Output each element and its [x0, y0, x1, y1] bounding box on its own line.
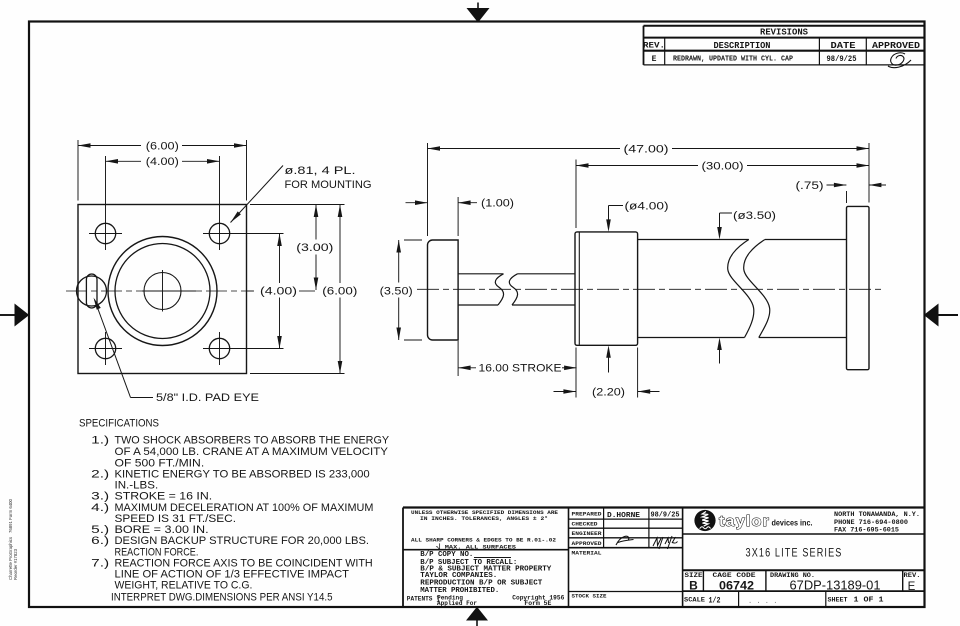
svg-text:MATERIAL: MATERIAL [572, 550, 602, 557]
dim 4.00 vertical right [280, 233, 284, 235]
svg-text:(30.00): (30.00) [702, 160, 744, 172]
flange plate square outline [78, 205, 247, 374]
rod break line left [495, 274, 503, 305]
piston rod lower edge [458, 304, 498, 306]
dim 30.00 body [576, 165, 698, 167]
svg-text:IN.-LBS.: IN.-LBS. [115, 479, 159, 491]
dim 47.00 overall [428, 148, 621, 150]
svg-text:REDRAWN, UPDATED WITH CYL. CAP: REDRAWN, UPDATED WITH CYL. CAP [673, 56, 794, 64]
cylinder front cap [575, 232, 638, 345]
flange horizontal centerline [66, 290, 254, 292]
extension lines right [250, 204, 345, 206]
svg-text:E: E [908, 581, 916, 593]
dim 16.00 stroke [458, 367, 476, 369]
svg-text:STROKE = 16 IN.: STROKE = 16 IN. [115, 491, 213, 503]
svg-text:(47.00): (47.00) [624, 143, 669, 155]
dim 1.00 plate thickness [406, 202, 428, 204]
svg-text:E: E [652, 55, 657, 64]
svg-text:SHEET: SHEET [828, 597, 848, 604]
mounting plate side view [428, 240, 459, 340]
svg-text:INTERPRET DWG.DIMENSIONS PER A: INTERPRET DWG.DIMENSIONS PER ANSI Y14.5 [111, 591, 333, 603]
leader dia 4.00 front cap [609, 205, 624, 207]
svg-text:98/9/25: 98/9/25 [651, 512, 681, 520]
mounting hole bottom-right [209, 338, 229, 358]
svg-text:PATENTS ]: PATENTS ] [407, 595, 440, 602]
svg-text:OF A 54,000 LB. CRANE AT A MAX: OF A 54,000 LB. CRANE AT A MAXIMUM VELOC… [115, 446, 389, 458]
svg-text:3.): 3.) [91, 491, 109, 503]
svg-text:67DP-13189-01: 67DP-13189-01 [790, 578, 881, 592]
piston rod upper edge [458, 273, 503, 275]
dim 3.50 plate height [398, 240, 400, 283]
leader dia 3.50 body [720, 212, 733, 214]
svg-text:PHONE 716-694-0800: PHONE 716-694-0800 [834, 519, 908, 526]
svg-text:4.): 4.) [91, 502, 109, 514]
dim 6.00 vertical [339, 205, 341, 284]
center circle crosshair [142, 290, 196, 292]
svg-text:(4.00): (4.00) [260, 285, 297, 297]
svg-text:3X16 LITE SERIES: 3X16 LITE SERIES [746, 546, 843, 560]
svg-text:16.00 STROKE: 16.00 STROKE [479, 363, 562, 375]
svg-text:Form 5E: Form 5E [524, 600, 551, 607]
leader pad eye label [131, 397, 154, 399]
svg-text:(2.20): (2.20) [592, 386, 625, 398]
svg-text:2.): 2.) [91, 468, 109, 480]
bore outer circle [108, 237, 217, 346]
dim .75 rear cap thickness [827, 184, 847, 186]
svg-text:76891 Form 6400: 76891 Form 6400 [8, 498, 13, 533]
svg-text:⎷ MAX. ALL SURFACES: ⎷ MAX. ALL SURFACES [435, 543, 517, 550]
cylinder body upper edge [638, 239, 749, 241]
svg-text:7.): 7.) [91, 557, 109, 569]
svg-text:(ø3.50): (ø3.50) [733, 210, 776, 222]
registration triangle left [0, 304, 29, 327]
center shaft circle [144, 273, 181, 310]
svg-text:REV.: REV. [904, 572, 921, 579]
approved date handwriting [653, 536, 678, 549]
mounting hole bottom-left [95, 338, 115, 358]
svg-text:SCALE: SCALE [684, 597, 705, 604]
cylinder body lower edge [638, 337, 745, 339]
mounting hole top-right [209, 223, 229, 243]
svg-text:(1.00): (1.00) [481, 198, 514, 210]
svg-text:SPECIFICATIONS: SPECIFICATIONS [79, 417, 159, 429]
svg-text:FOR MOUNTING: FOR MOUNTING [285, 179, 372, 191]
svg-text:. . . .: . . . . [748, 598, 777, 606]
revisions table grid [644, 26, 926, 65]
svg-text:ø.81, 4 PL.: ø.81, 4 PL. [285, 165, 356, 177]
svg-text:IN INCHES. TOLERANCES, ANGLES: IN INCHES. TOLERANCES, ANGLES ± 2° [420, 516, 548, 522]
svg-text:1/2: 1/2 [709, 597, 721, 606]
svg-text:(3.50): (3.50) [380, 285, 413, 297]
svg-text:B: B [689, 578, 698, 592]
svg-text:6.): 6.) [91, 535, 109, 547]
svg-text:APPROVED: APPROVED [572, 540, 602, 547]
svg-text:(6.00): (6.00) [322, 285, 357, 297]
svg-text:DESCRIPTION: DESCRIPTION [714, 41, 771, 51]
registration triangle right [924, 304, 958, 327]
dim 2.20 front cap width [554, 391, 576, 393]
approved row signature [616, 536, 634, 545]
svg-text:D.HORNE: D.HORNE [607, 512, 641, 520]
svg-text:Applied For: Applied For [437, 600, 477, 607]
leader dia .81 mounting holes [231, 166, 284, 223]
dim 6.00 top [78, 145, 141, 147]
pad eye slot [86, 274, 97, 308]
svg-text:(4.00): (4.00) [146, 156, 179, 168]
svg-text:B/P COPY NO.: B/P COPY NO. [420, 551, 473, 559]
svg-text:(3.00): (3.00) [296, 242, 333, 254]
svg-text:FAX 716-695-6015: FAX 716-695-6015 [834, 526, 899, 533]
svg-text:REV.: REV. [643, 41, 665, 51]
svg-text:Reorder #17823: Reorder #17823 [13, 548, 18, 580]
registration triangle top [467, 3, 490, 23]
bore inner circle [115, 244, 210, 339]
registration triangle bottom [466, 607, 488, 626]
svg-text:STOCK SIZE: STOCK SIZE [572, 592, 607, 599]
svg-text:devices inc.: devices inc. [772, 519, 813, 528]
svg-text:APPROVED: APPROVED [872, 41, 921, 51]
dim 4.00 top [106, 160, 142, 162]
svg-text:TWO SHOCK ABSORBERS TO ABSORB: TWO SHOCK ABSORBERS TO ABSORB THE ENERGY [115, 435, 390, 447]
centerline extension to labels [247, 290, 255, 292]
svg-text:98/9/25: 98/9/25 [827, 55, 857, 64]
svg-text:(.75): (.75) [796, 180, 824, 192]
title block grid [403, 508, 924, 607]
svg-text:DATE: DATE [831, 41, 857, 51]
svg-text:(6.00): (6.00) [146, 140, 179, 152]
svg-text:ENGINEER: ENGINEER [572, 530, 602, 537]
svg-text:UNLESS OTHERWISE SPECIFIED DIM: UNLESS OTHERWISE SPECIFIED DIMENSIONS AR… [411, 510, 559, 516]
extension lines top [77, 140, 79, 201]
assembly centerline [417, 288, 884, 290]
svg-text:1 OF 1: 1 OF 1 [854, 597, 884, 605]
dim 3.00 vertical [315, 205, 317, 240]
mounting hole top-left [95, 223, 115, 243]
extension lines side view top [427, 143, 429, 236]
svg-text:NORTH TONAWANDA, N.Y.: NORTH TONAWANDA, N.Y. [834, 511, 920, 518]
svg-text:taylor: taylor [719, 514, 770, 530]
taylor devices logo [694, 510, 716, 531]
svg-text:ALL SHARP CORNERS & EDGES TO B: ALL SHARP CORNERS & EDGES TO BE R.01-.02 [411, 538, 556, 544]
rear cylinder cap plate [847, 206, 870, 369]
rod break line right [509, 274, 517, 305]
svg-text:PREPARED: PREPARED [572, 511, 602, 518]
pad eye boss circle [77, 276, 107, 306]
body break line right [744, 240, 770, 338]
svg-text:REVISIONS: REVISIONS [760, 26, 808, 37]
svg-text:CHECKED: CHECKED [572, 520, 598, 527]
revision approved signature [888, 53, 911, 68]
left margin printer text [8, 498, 18, 580]
svg-text:5/8" I.D. PAD EYE: 5/8" I.D. PAD EYE [156, 392, 259, 404]
svg-text:06742: 06742 [719, 578, 754, 592]
svg-text:WEIGHT, RELATIVE TO C.G.: WEIGHT, RELATIVE TO C.G. [115, 580, 253, 592]
body break line left [728, 240, 754, 338]
svg-text:(ø4.00): (ø4.00) [625, 200, 669, 212]
svg-text:1.): 1.) [91, 435, 109, 447]
